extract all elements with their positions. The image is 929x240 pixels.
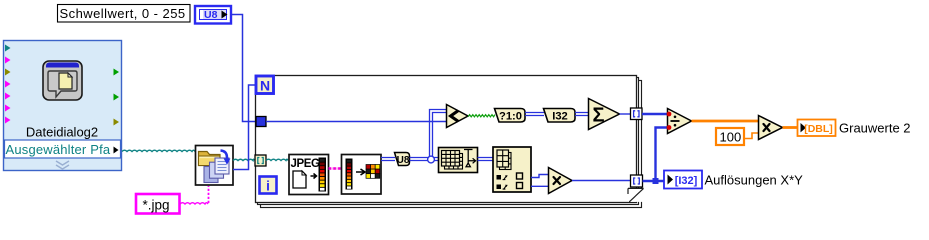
svg-text:Ausgewählter Pfa: Ausgewählter Pfa xyxy=(6,142,111,157)
junction dot xyxy=(653,178,659,184)
for loop folded corner xyxy=(628,188,644,202)
wire sum to output tunnel xyxy=(620,113,632,115)
Unflatten Pixmap VI icon xyxy=(342,155,382,195)
svg-text:100: 100 xyxy=(720,130,742,145)
wire string *.jpg to List-Folder VI xyxy=(180,203,208,204)
for loop N terminal xyxy=(256,76,274,94)
wire 2D u8 array to junction xyxy=(410,158,439,161)
wire quotient to multiply xyxy=(692,120,759,123)
conversion to I32 xyxy=(544,109,576,123)
wire branch up to comparator xyxy=(430,110,447,159)
svg-text:Σ: Σ xyxy=(592,105,604,127)
wire U8 threshold to loop tunnel xyxy=(231,15,256,122)
tunnel threshold (scalar U8) xyxy=(256,117,266,127)
control terminal U8 (Schwellwert) xyxy=(195,6,231,24)
conversion to U8 xyxy=(395,153,410,167)
for loop i terminal xyxy=(260,177,277,194)
wire file count to loop N terminal xyxy=(233,85,255,170)
List-Folder subVI icon xyxy=(196,146,234,186)
wire path tunnel to Read-JPEG VI xyxy=(266,159,288,160)
svg-text:N: N xyxy=(260,78,270,94)
svg-text:i: i xyxy=(266,179,270,194)
numeric constant 100 xyxy=(716,128,744,145)
express VI icon (file dialog) xyxy=(43,61,82,100)
wire 2D pixmap array to U8 conversion xyxy=(381,158,395,161)
express VI Dateidialog2 xyxy=(4,41,122,171)
svg-text:?1:0: ?1:0 xyxy=(499,111,522,123)
svg-text:Auflösungen X*Y: Auflösungen X*Y xyxy=(705,173,804,188)
comparator less-than xyxy=(447,105,469,128)
svg-text:I32: I32 xyxy=(552,111,568,123)
divide node xyxy=(667,109,692,134)
wire rows to multiply xyxy=(531,175,548,178)
tunnel path array auto-indexing xyxy=(255,155,266,166)
svg-text:Grauwerte 2: Grauwerte 2 xyxy=(839,121,911,136)
wire path Ausgewaehlter Pfad to List-Folder VI xyxy=(122,150,195,151)
wire to DBL indicator xyxy=(783,126,798,129)
indicator array DBL Grauwerte 2 xyxy=(798,120,836,137)
label Schwellwert, 0 - 255 xyxy=(58,5,191,23)
wire 100 to multiply xyxy=(744,133,758,139)
junction dot xyxy=(428,156,435,163)
Read JPEG File VI icon xyxy=(289,155,329,195)
svg-text:U8: U8 xyxy=(397,155,410,166)
wire cols to multiply xyxy=(531,185,548,187)
add array elements sigma xyxy=(589,99,620,130)
tunnel sum output auto-indexing xyxy=(631,108,643,120)
for loop stacked border xyxy=(256,76,642,208)
svg-text:Dateidialog2: Dateidialog2 xyxy=(26,125,98,140)
wire int array select to I32 xyxy=(525,113,544,116)
indicator array I32 Aufloesungen xyxy=(664,171,702,189)
multiply X*Y xyxy=(549,168,573,194)
wire product array to divide and indicator xyxy=(643,180,665,182)
wire threshold scalar to comparator xyxy=(266,121,446,123)
svg-text:*.jpg: *.jpg xyxy=(143,198,170,213)
wire sum array to divide xyxy=(642,113,668,115)
multiply by 100 xyxy=(759,116,783,140)
wire multiply to tunnel xyxy=(572,180,631,182)
svg-text:U8: U8 xyxy=(204,9,218,21)
express VI input arrows xyxy=(5,45,11,124)
svg-text:[DBL]: [DBL] xyxy=(804,123,833,135)
Transpose 2D Array icon xyxy=(439,148,478,173)
array dimensions subVI icon xyxy=(493,147,531,192)
svg-text:JPEG: JPEG xyxy=(291,158,321,170)
svg-text:[I32]: [I32] xyxy=(675,175,698,187)
wire transposed array to size VI xyxy=(478,158,494,161)
wire image-data cluster xyxy=(329,167,342,169)
coercion dots xyxy=(667,112,672,117)
tunnel product output auto-indexing xyxy=(631,175,643,187)
wire path array List-Folder to loop tunnel xyxy=(233,159,254,160)
express VI output arrows xyxy=(114,69,120,126)
wire I32 array to sum xyxy=(575,113,588,116)
wire boolean array comparator to select xyxy=(468,115,495,117)
string constant *.jpg xyxy=(136,194,180,214)
svg-text:Schwellwert, 0 - 255: Schwellwert, 0 - 255 xyxy=(60,6,186,21)
boolean to 0-1 node ?1:0 xyxy=(495,109,526,123)
